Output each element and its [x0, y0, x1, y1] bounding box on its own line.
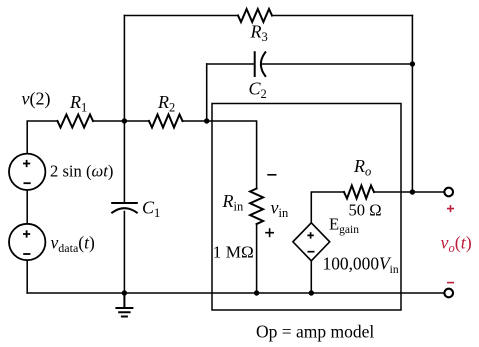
output plus sign (red)	[447, 205, 454, 212]
wire V2 to bottom rail	[26, 260, 28, 293]
junction dot ground	[122, 290, 127, 295]
wire C2 branch vertical from node B	[206, 64, 208, 121]
capacitor C1	[112, 203, 137, 213]
svg-text:50 Ω: 50 Ω	[349, 201, 382, 220]
op-amp model box	[212, 104, 401, 311]
resistor Ro	[344, 186, 374, 199]
wire Egain bottom	[310, 261, 312, 293]
output minus sign (red)	[447, 282, 454, 284]
wire top rail right of R3	[272, 15, 412, 17]
output terminal top	[444, 188, 453, 197]
wire R2 to Rin top	[183, 121, 257, 189]
Egain minus sign	[308, 251, 315, 253]
controlled source Egain diamond	[293, 223, 330, 261]
ground	[116, 293, 132, 317]
capacitor C2	[255, 52, 266, 76]
source V2 minus sign	[23, 253, 30, 255]
Egain plus sign	[307, 232, 313, 238]
wire C1 lower	[123, 212, 125, 294]
junction dot C2/feedback	[410, 61, 415, 66]
wire top rail left of R3	[124, 15, 238, 17]
node B junction dot	[204, 118, 209, 123]
wire R1 to R2 through node A	[93, 120, 149, 122]
svg-text:vo(t): vo(t)	[441, 233, 472, 256]
source V2 circle	[9, 224, 45, 260]
wire Ro to output terminal	[374, 191, 444, 193]
wire C2 branch right	[262, 63, 413, 65]
svg-text:v(2): v(2)	[22, 89, 51, 110]
junction dot Egain bottom	[309, 290, 314, 295]
source V1 plus sign	[23, 160, 30, 167]
vin plus sign	[265, 228, 274, 237]
wire C1 upper	[123, 121, 125, 203]
resistor Rin	[250, 189, 263, 224]
svg-text:2 sin (ωt): 2 sin (ωt)	[50, 162, 113, 181]
wire feedback right vertical	[411, 16, 413, 193]
wire bottom rail	[27, 292, 444, 294]
wire between sources	[26, 190, 28, 224]
svg-text:Op = amp model: Op = amp model	[256, 322, 374, 342]
source V1 circle	[9, 154, 45, 190]
wire Egain top to Ro	[311, 192, 344, 223]
resistor R2	[149, 115, 183, 128]
output terminal bottom	[444, 289, 453, 298]
junction dot Rin bottom	[254, 290, 259, 295]
resistor R1	[58, 115, 94, 128]
junction dot Ro/feedback	[410, 189, 415, 194]
node A junction dot	[122, 118, 127, 123]
resistor R3	[238, 9, 272, 22]
wire Rin bottom	[256, 224, 258, 293]
svg-text:1 MΩ: 1 MΩ	[213, 243, 254, 262]
wire v(2) node to R1	[27, 121, 57, 154]
vin minus sign	[267, 174, 276, 176]
source V2 plus sign	[23, 230, 30, 237]
source V1 minus sign	[24, 182, 31, 184]
svg-text:100,000Vin: 100,000Vin	[323, 254, 399, 277]
wire top loop left vertical	[123, 16, 125, 122]
wire C2 branch left	[207, 63, 255, 65]
